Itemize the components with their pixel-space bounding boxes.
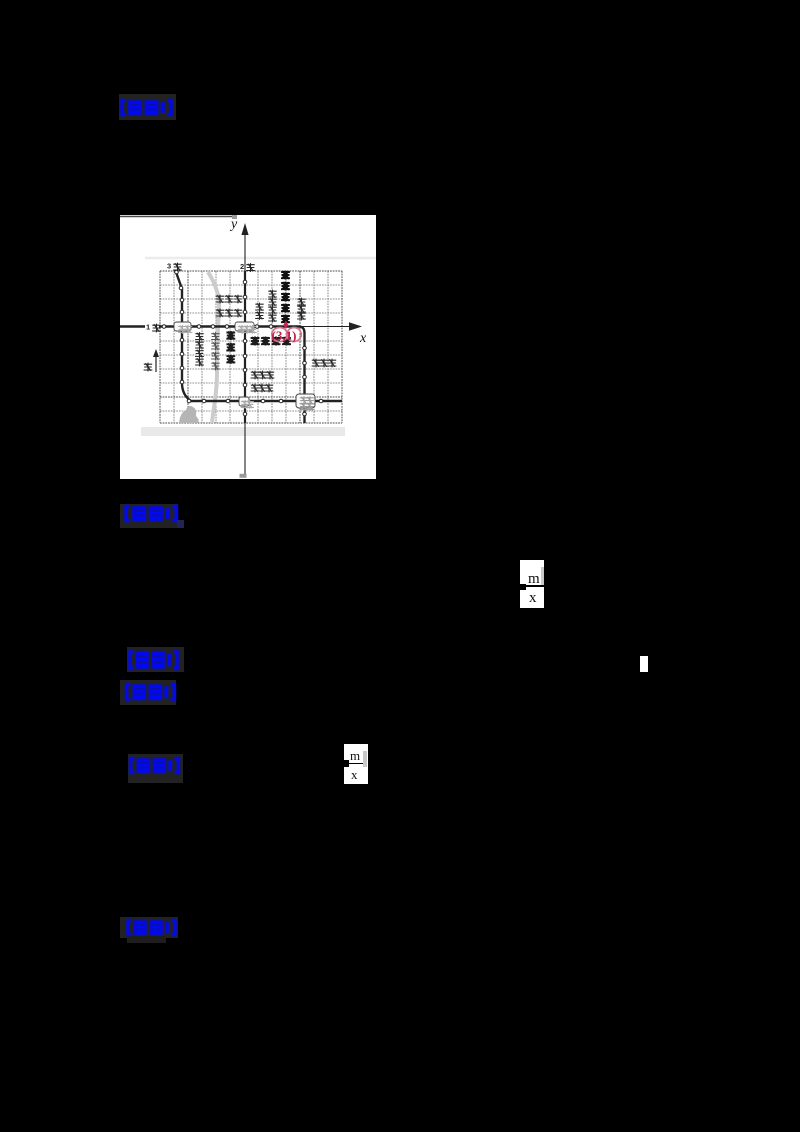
top artifact line [120, 216, 232, 218]
svg-text:1: 1 [146, 323, 150, 332]
street 太原火车站 (vertical bold big) [281, 271, 290, 324]
white mark [640, 656, 648, 672]
street 长风街 [251, 371, 275, 380]
street 郝家庄 (vertical) [297, 298, 306, 321]
station box 大南门 [235, 322, 257, 334]
park blob [179, 406, 199, 423]
street 五一广场 (vertical) [268, 290, 277, 323]
label 6 【点评】 [120, 917, 178, 938]
street 东大堡 [312, 359, 337, 368]
label 3号 [167, 262, 182, 272]
station dots [162, 270, 323, 416]
street 府西街 [216, 295, 243, 304]
street 滨河西路 (vertical, light) [211, 332, 220, 370]
station box 下元 [174, 322, 192, 334]
svg-text:(3,1): (3,1) [272, 328, 297, 343]
y-axis [244, 233, 246, 477]
street 理工大学 (vertical) [195, 332, 204, 366]
north arrow 北 [144, 349, 159, 372]
gray band [141, 427, 345, 436]
metro line 3 [176, 272, 342, 401]
street 柳巷 (vertical) [255, 303, 264, 320]
svg-text:3: 3 [167, 262, 171, 271]
metro line 2 [244, 271, 246, 423]
grid [160, 271, 342, 423]
river [208, 272, 219, 423]
metro line 1 [120, 327, 305, 424]
fraction 2 m/x [344, 744, 368, 784]
navy square after label 2 [177, 520, 184, 528]
map image [120, 215, 376, 479]
station box 太原南站 [296, 394, 315, 411]
svg-text:x: x [359, 331, 367, 346]
fraction 1 m/x [520, 560, 544, 608]
station box small [239, 397, 254, 409]
faint band [145, 257, 376, 260]
label 5 【解答】 [128, 754, 183, 783]
label 2号 [240, 262, 255, 272]
street 双塔西街 (bold) [251, 337, 292, 346]
x-axis [120, 326, 353, 328]
label 1号 [145, 322, 161, 332]
street 桃园路 (vertical bold) [226, 331, 235, 364]
red highlight (3,1) [272, 321, 302, 344]
svg-text:2: 2 [240, 262, 244, 271]
label 3 【考点】 [127, 647, 184, 672]
street 学府街 [251, 384, 274, 393]
svg-text:y: y [229, 217, 238, 232]
label 2 【详解】 [120, 504, 178, 528]
street 体缓街 [216, 309, 243, 318]
label 1 【解析】 [119, 94, 176, 120]
label 4 【分析】 [120, 680, 176, 705]
